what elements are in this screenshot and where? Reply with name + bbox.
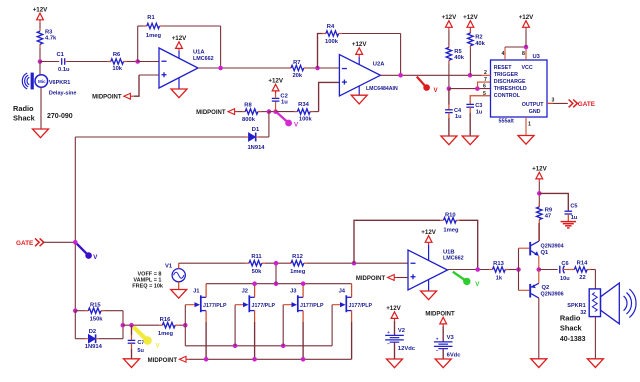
svg-text:6: 6 bbox=[483, 84, 486, 90]
svg-text:4: 4 bbox=[502, 51, 505, 57]
svg-text:FREQ = 10k: FREQ = 10k bbox=[132, 284, 164, 290]
svg-text:1meg: 1meg bbox=[158, 331, 174, 337]
svg-text:1u: 1u bbox=[281, 99, 288, 105]
svg-text:−: − bbox=[387, 343, 390, 348]
svg-text:8: 8 bbox=[522, 51, 525, 57]
svg-text:0.1u: 0.1u bbox=[58, 67, 70, 73]
svg-text:10u: 10u bbox=[560, 276, 570, 282]
svg-text:1: 1 bbox=[528, 121, 531, 127]
svg-text:MIDPOINT: MIDPOINT bbox=[148, 358, 178, 364]
svg-text:J1: J1 bbox=[193, 288, 200, 294]
svg-text:1u: 1u bbox=[571, 215, 578, 221]
svg-text:C1: C1 bbox=[56, 52, 64, 58]
svg-text:V6PKR1: V6PKR1 bbox=[49, 80, 70, 86]
svg-text:Shack: Shack bbox=[560, 323, 583, 332]
svg-text:J177/PLP: J177/PLP bbox=[203, 303, 227, 309]
svg-text:D2: D2 bbox=[89, 329, 96, 335]
svg-text:3: 3 bbox=[552, 97, 555, 103]
svg-text:Q2: Q2 bbox=[542, 285, 550, 291]
svg-text:R15: R15 bbox=[90, 303, 101, 309]
svg-text:12Vdc: 12Vdc bbox=[398, 346, 416, 352]
svg-text:VCC: VCC bbox=[522, 65, 533, 71]
svg-text:R14: R14 bbox=[577, 260, 588, 266]
svg-text:7: 7 bbox=[484, 77, 487, 83]
svg-text:+12V: +12V bbox=[463, 14, 478, 21]
svg-text:U1B: U1B bbox=[443, 249, 455, 255]
svg-text:R7: R7 bbox=[293, 60, 300, 66]
svg-text:150k: 150k bbox=[90, 317, 104, 323]
svg-text:DISCHARGE: DISCHARGE bbox=[494, 79, 526, 85]
svg-text:J3: J3 bbox=[290, 288, 297, 294]
svg-text:+12V: +12V bbox=[442, 14, 457, 21]
svg-text:1meg: 1meg bbox=[146, 33, 162, 39]
svg-text:R12: R12 bbox=[292, 254, 303, 260]
svg-text:R6: R6 bbox=[113, 52, 121, 58]
svg-text:R10: R10 bbox=[445, 213, 456, 219]
svg-text:+12V: +12V bbox=[268, 78, 283, 85]
svg-text:1u: 1u bbox=[476, 109, 483, 115]
svg-text:20k: 20k bbox=[292, 73, 302, 79]
svg-text:Q2N3906: Q2N3906 bbox=[541, 292, 564, 298]
svg-text:RESET: RESET bbox=[494, 65, 512, 71]
svg-text:50k: 50k bbox=[252, 269, 262, 275]
svg-text:5u: 5u bbox=[137, 348, 144, 354]
svg-text:+: + bbox=[436, 337, 439, 342]
svg-text:100k: 100k bbox=[325, 39, 339, 45]
svg-text:+12V: +12V bbox=[532, 166, 547, 173]
svg-text:5: 5 bbox=[483, 91, 486, 97]
svg-text:R13: R13 bbox=[493, 261, 504, 267]
svg-text:+12V: +12V bbox=[421, 229, 436, 236]
svg-text:GATE: GATE bbox=[16, 240, 34, 247]
svg-text:V2: V2 bbox=[398, 328, 405, 334]
svg-text:C6: C6 bbox=[561, 261, 568, 267]
svg-text:2: 2 bbox=[484, 70, 487, 76]
svg-text:C5: C5 bbox=[570, 204, 577, 210]
svg-text:C3: C3 bbox=[475, 103, 482, 109]
svg-text:1k: 1k bbox=[496, 275, 503, 281]
svg-text:1u: 1u bbox=[455, 114, 462, 120]
svg-text:Shack: Shack bbox=[13, 114, 36, 123]
svg-text:555alt: 555alt bbox=[499, 119, 514, 125]
svg-text:V3: V3 bbox=[447, 335, 455, 341]
svg-text:R2: R2 bbox=[475, 35, 482, 41]
svg-text:40-1383: 40-1383 bbox=[560, 336, 586, 343]
svg-text:C4: C4 bbox=[454, 108, 462, 114]
svg-text:Delay-sine: Delay-sine bbox=[49, 91, 77, 97]
svg-text:SPKR1: SPKR1 bbox=[567, 303, 585, 309]
svg-text:U3: U3 bbox=[533, 54, 541, 60]
svg-text:6Vdc: 6Vdc bbox=[447, 352, 462, 358]
svg-text:GND: GND bbox=[529, 109, 541, 115]
svg-text:J2: J2 bbox=[242, 288, 248, 294]
svg-text:Radio: Radio bbox=[13, 104, 34, 113]
svg-text:LMC662: LMC662 bbox=[193, 56, 214, 62]
svg-text:4.7k: 4.7k bbox=[45, 36, 57, 42]
svg-text:10k: 10k bbox=[112, 66, 122, 72]
svg-text:THRESHOLD: THRESHOLD bbox=[494, 86, 527, 92]
svg-text:V1: V1 bbox=[165, 264, 173, 270]
svg-text:47: 47 bbox=[545, 213, 551, 219]
svg-text:1meg: 1meg bbox=[443, 227, 459, 233]
svg-text:1N914: 1N914 bbox=[85, 344, 103, 350]
svg-text:R1: R1 bbox=[147, 15, 155, 21]
svg-text:R8: R8 bbox=[244, 102, 252, 108]
svg-text:D1: D1 bbox=[252, 127, 260, 133]
svg-text:OUTPUT: OUTPUT bbox=[522, 102, 545, 108]
svg-text:800k: 800k bbox=[242, 117, 256, 123]
svg-text:J177/PLP: J177/PLP bbox=[300, 303, 324, 309]
svg-text:MIDPOINT: MIDPOINT bbox=[425, 311, 455, 317]
svg-text:100k: 100k bbox=[299, 116, 313, 122]
svg-text:MIDPOINT: MIDPOINT bbox=[356, 276, 386, 282]
svg-text:J177/PLP: J177/PLP bbox=[349, 303, 373, 309]
svg-text:1meg: 1meg bbox=[290, 269, 306, 275]
svg-text:LMC6484AIN: LMC6484AIN bbox=[366, 86, 398, 92]
svg-text:TRIGGER: TRIGGER bbox=[494, 72, 518, 78]
svg-text:270-090: 270-090 bbox=[47, 113, 73, 120]
svg-text:R4: R4 bbox=[327, 24, 335, 30]
svg-text:+12V: +12V bbox=[352, 41, 367, 48]
svg-text:J4: J4 bbox=[339, 288, 346, 294]
svg-text:Radio: Radio bbox=[560, 313, 581, 322]
svg-text:+12V: +12V bbox=[33, 7, 48, 14]
svg-text:+12V: +12V bbox=[386, 305, 401, 312]
svg-text:1N914: 1N914 bbox=[247, 145, 265, 151]
svg-text:+: + bbox=[387, 331, 390, 336]
svg-text:LMC662: LMC662 bbox=[443, 256, 464, 262]
svg-text:22: 22 bbox=[579, 275, 585, 281]
svg-text:+12V: +12V bbox=[172, 35, 187, 42]
svg-text:R16: R16 bbox=[160, 317, 171, 323]
svg-text:40k: 40k bbox=[475, 41, 485, 47]
svg-text:J177/PLP: J177/PLP bbox=[252, 303, 276, 309]
svg-text:Q1: Q1 bbox=[541, 250, 550, 256]
svg-text:+12V: +12V bbox=[519, 14, 534, 21]
svg-text:Mic: Mic bbox=[38, 79, 46, 84]
svg-text:U2A: U2A bbox=[373, 62, 385, 68]
svg-text:GATE: GATE bbox=[578, 101, 596, 108]
svg-text:MIDPOINT: MIDPOINT bbox=[92, 95, 122, 101]
svg-text:MIDPOINT: MIDPOINT bbox=[196, 110, 226, 116]
svg-text:R34: R34 bbox=[298, 102, 309, 108]
svg-text:VAMPL = 1: VAMPL = 1 bbox=[133, 278, 161, 284]
svg-text:32: 32 bbox=[580, 310, 586, 316]
svg-text:Q2N3904: Q2N3904 bbox=[541, 243, 564, 249]
svg-text:U1A: U1A bbox=[193, 50, 205, 56]
svg-text:R11: R11 bbox=[251, 254, 262, 260]
svg-text:40k: 40k bbox=[454, 55, 464, 61]
svg-text:−: − bbox=[436, 349, 439, 354]
svg-text:CONTROL: CONTROL bbox=[494, 93, 521, 99]
